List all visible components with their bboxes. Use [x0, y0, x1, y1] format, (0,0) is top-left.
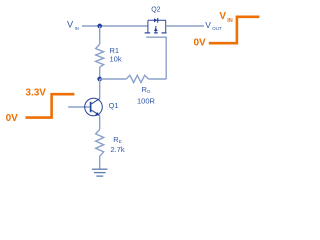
svg-text:OUT: OUT [212, 26, 222, 31]
Q1 emitter arrow [95, 112, 99, 116]
RG label [137, 85, 156, 105]
svg-text:V: V [205, 20, 211, 30]
svg-text:IN: IN [75, 26, 79, 31]
Q2 channel dashes [145, 32, 167, 34]
resistor RE [96, 129, 104, 156]
wire VIN to node [82, 25, 100, 27]
svg-text:3.3V: 3.3V [25, 87, 46, 98]
node VIN label [67, 20, 79, 31]
svg-text:Q1: Q1 [109, 101, 119, 110]
transistor Q1 (NPN) [85, 98, 103, 116]
svg-text:V: V [219, 11, 226, 22]
svg-text:0V: 0V [6, 113, 19, 124]
svg-text:10k: 10k [110, 55, 122, 64]
svg-text:V: V [67, 20, 74, 30]
ground [92, 169, 108, 176]
svg-text:100R: 100R [137, 96, 156, 105]
svg-text:2.7k: 2.7k [111, 145, 125, 154]
svg-text:G: G [147, 89, 151, 94]
Q2 body diode [154, 18, 158, 23]
junction dot top node [97, 24, 102, 29]
wire RG to gate lead [148, 78, 166, 80]
transistor Q2 (P-channel MOSFET) [148, 20, 166, 33]
svg-text:Q2: Q2 [151, 6, 160, 13]
wire Q1 emitter to RE [99, 116, 101, 130]
wire Q2 drain to VOUT [166, 25, 204, 27]
wire node to Q2 source [100, 25, 148, 27]
output step waveform VIN [209, 17, 260, 43]
node VOUT label [205, 20, 222, 31]
wire RE to ground [99, 156, 101, 169]
svg-text:E: E [119, 139, 122, 144]
R1 value labels [110, 46, 122, 63]
wire node to Q1 collector [99, 79, 101, 99]
VIN waveform label [219, 11, 232, 24]
svg-text:IN: IN [227, 18, 233, 24]
svg-text:0V: 0V [194, 37, 207, 48]
Q2 body arrow [154, 28, 158, 32]
resistor RG [126, 75, 148, 82]
wire Q1 base [68, 106, 90, 108]
input step waveform 3.3V [26, 94, 75, 117]
RE label [111, 135, 125, 154]
Q2 gate plate and gate lead wire [146, 37, 166, 79]
wire node to RG [100, 78, 127, 80]
resistor R1 [96, 26, 104, 79]
junction dot gate node [97, 77, 102, 82]
